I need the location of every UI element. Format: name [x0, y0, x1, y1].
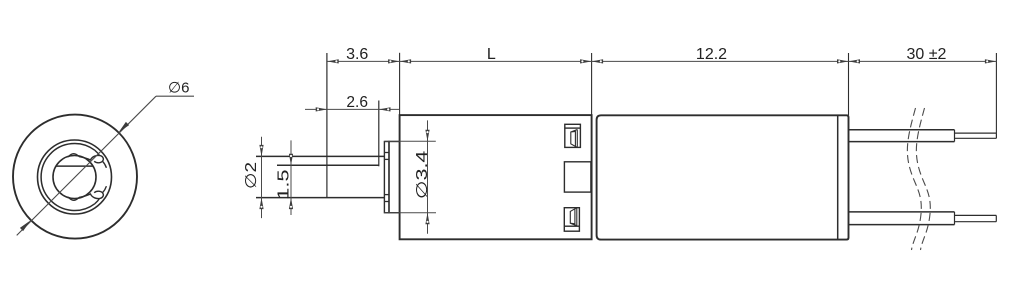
bottom wire insulation	[849, 211, 955, 213]
washer bottom cell ticks	[384, 194, 389, 196]
retaining ring inner arc	[41, 143, 95, 210]
front view outer circle (motor OD 6)	[13, 115, 137, 239]
svg-text:1.5: 1.5	[276, 169, 293, 200]
2.6 dim tails	[305, 108, 400, 110]
washer strip	[384, 142, 389, 213]
bearing boss	[389, 142, 400, 213]
dim arrows 1.5 (outside)	[289, 154, 293, 166]
center rect at gearbox rear	[564, 162, 591, 192]
dia3.4 extension lines	[384, 140, 435, 142]
svg-text:∅2: ∅2	[243, 162, 260, 189]
dim arrows 30 pm 2	[849, 59, 861, 63]
dia2 dim vertical	[261, 137, 263, 218]
shaft circle	[53, 156, 96, 199]
clip top lobe bump	[68, 154, 79, 157]
dimension texts	[243, 46, 946, 200]
shaft tip face (with extension up to dim)	[326, 53, 328, 198]
motor end cap seam	[837, 115, 839, 239]
dim arrows dia3.4 (outside)	[425, 130, 429, 142]
svg-text:L: L	[487, 46, 496, 63]
svg-text:12.2: 12.2	[696, 46, 727, 63]
motor tab bottom	[564, 208, 579, 232]
motor body	[597, 115, 849, 239]
svg-text:2.6: 2.6	[346, 94, 368, 111]
motor tab top	[565, 124, 581, 147]
dim arrows 3.6	[327, 59, 339, 63]
break wavy lines	[907, 108, 930, 250]
top wire insulation	[849, 129, 955, 131]
motor tab top 3d mark	[571, 130, 578, 148]
bottom wire conductor	[955, 214, 997, 216]
dim arrows 12.2	[592, 59, 604, 63]
dim arrows dia2 (outside)	[259, 145, 263, 157]
motor rear face extension to dims	[848, 53, 850, 115]
dia3.4 dim vertical	[427, 120, 429, 233]
svg-text:∅3.4: ∅3.4	[414, 150, 431, 199]
clip bottom-right hook	[79, 186, 106, 204]
dimension arrows	[259, 59, 996, 224]
top dim line 30+-2	[849, 60, 997, 62]
shaft flat chord	[56, 165, 92, 167]
dim arrows 2.6 (outside)	[316, 107, 328, 111]
svg-text:∅6: ∅6	[168, 80, 189, 97]
clip bottom lobe bump	[68, 197, 79, 200]
clip top-right hook	[79, 150, 106, 168]
retaining ring outer circle	[38, 140, 112, 214]
shaft bottom line	[256, 197, 384, 199]
top dim line 12.2	[592, 60, 849, 62]
top wire conductor	[955, 132, 997, 134]
shaft top line	[256, 155, 384, 157]
top dim line 3.6	[327, 60, 399, 62]
gearbox front face extension to dims	[399, 53, 401, 115]
flat end vertical (with extension to 2.6 dim)	[378, 101, 380, 167]
dim arrows L	[400, 59, 412, 63]
svg-text:30 ±2: 30 ±2	[907, 46, 947, 63]
gearbox body	[400, 115, 592, 239]
wire end extension up to dim	[995, 53, 997, 133]
leader line for dia 6	[17, 96, 194, 235]
motor tab bottom 3d mark	[570, 208, 577, 226]
gearbox rear face extension to dims	[591, 53, 593, 115]
leader arrowheads	[20, 122, 129, 231]
shaft flat line	[277, 164, 379, 166]
1.5 dim vertical	[290, 140, 292, 215]
top dim line L	[400, 60, 592, 62]
washer top cell ticks	[384, 152, 389, 154]
svg-text:3.6: 3.6	[346, 46, 368, 63]
